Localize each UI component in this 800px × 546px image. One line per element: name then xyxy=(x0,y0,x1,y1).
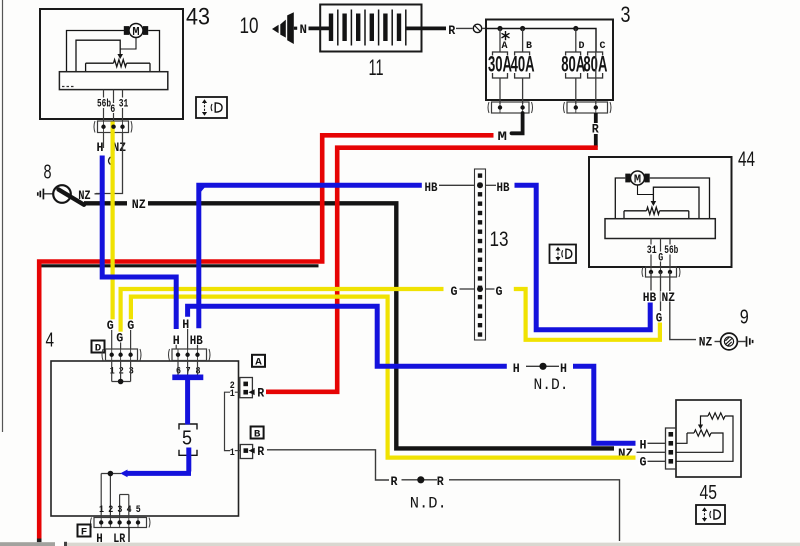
fuse A lead xyxy=(499,29,501,53)
45 pin 2 xyxy=(669,441,674,446)
strip 13 pin 4 xyxy=(478,201,482,205)
motor M in 43 xyxy=(124,24,148,39)
svg-text:HB: HB xyxy=(497,180,510,195)
svg-text:G: G xyxy=(127,318,134,333)
wire label HB pin8 xyxy=(189,334,204,345)
junction dot G on strip 13 xyxy=(477,286,483,292)
junction dot H ND xyxy=(539,363,546,370)
wire label G at 45 xyxy=(639,456,649,467)
lead below F pin 4 xyxy=(128,528,130,543)
svg-text:M: M xyxy=(132,25,139,39)
black wire parallel to red xyxy=(42,264,319,267)
svg-text:LR: LR xyxy=(113,531,125,546)
wire 44 inner loop xyxy=(653,187,699,219)
boxed label A xyxy=(252,355,265,367)
left page border xyxy=(2,0,4,432)
resistor zigzag 43 xyxy=(114,60,127,67)
svg-text:45: 45 xyxy=(700,482,718,504)
connector pins 6-8 xyxy=(169,349,211,361)
wire label NZ under 44 xyxy=(661,291,676,302)
wire M from fuse B xyxy=(512,113,523,133)
45 pin 3 xyxy=(669,450,674,455)
svg-text:1: 1 xyxy=(230,388,235,400)
45 pin 1 xyxy=(669,432,674,437)
svg-text:G: G xyxy=(640,455,647,470)
strip 13 pin 13 xyxy=(478,286,482,290)
motor M in 44 xyxy=(625,171,649,186)
wire 43 internal left xyxy=(67,31,125,72)
45 wire to NZ pin xyxy=(676,433,723,452)
svg-text:R: R xyxy=(437,474,444,489)
svg-text:H: H xyxy=(513,361,520,376)
wire R from fuse C xyxy=(594,113,598,123)
45 wire to G pin xyxy=(676,416,733,461)
battery cell plate thick 3 xyxy=(356,14,360,42)
svg-text:5: 5 xyxy=(182,428,192,450)
wire R battery to fusebox xyxy=(406,26,446,30)
43 NZ thin lead down to node of component 8 xyxy=(96,133,123,194)
thin lead 44 HB pin xyxy=(650,272,652,291)
resistor zigzag 45 top xyxy=(708,413,725,419)
junction dot fuse A feed xyxy=(497,26,502,31)
svg-text:A: A xyxy=(502,40,509,52)
svg-text:NZ: NZ xyxy=(132,197,146,212)
svg-text:56b: 56b xyxy=(664,245,678,257)
pin dot 43 middle redrawn xyxy=(111,125,115,129)
ground circle 8 xyxy=(53,185,71,203)
svg-text:80A: 80A xyxy=(561,52,585,77)
svg-text:M: M xyxy=(634,172,641,186)
component box 44 wiper motor assembly xyxy=(589,157,732,267)
svg-text:NZ: NZ xyxy=(699,334,713,349)
thin lead pin6 xyxy=(175,344,177,349)
svg-text:30A: 30A xyxy=(488,52,512,77)
thin lead D pin1 xyxy=(111,330,113,349)
strip 13 pin 9 xyxy=(478,248,482,252)
red wire path M: fuse B to left edge down xyxy=(39,135,493,538)
wire N to battery xyxy=(309,26,332,30)
connector F pins 1-5 xyxy=(91,518,151,528)
43 pin stubs xyxy=(103,90,105,98)
battery cell plate thin 3 xyxy=(364,10,366,46)
wire label H pin7 xyxy=(181,318,191,329)
blue bus bar under pins 6-8 xyxy=(172,374,203,380)
cable sheath mark xyxy=(109,157,111,165)
svg-text:R: R xyxy=(257,444,264,459)
svg-text:2: 2 xyxy=(108,504,113,516)
svg-text:10: 10 xyxy=(240,13,259,38)
svg-text:13: 13 xyxy=(490,228,509,251)
connector B xyxy=(240,445,252,459)
strip 13 pin 3 xyxy=(478,192,482,196)
connector of 43 xyxy=(94,121,132,133)
svg-text:8: 8 xyxy=(44,162,52,184)
thick slash through circle 8 continuing as wire xyxy=(59,190,85,205)
arrow into A pin 1 xyxy=(248,389,254,395)
svg-text:F: F xyxy=(81,526,88,538)
wire label G D2 xyxy=(115,332,125,343)
svg-text:HB: HB xyxy=(190,333,203,348)
wiper arrow 43 xyxy=(117,54,123,59)
connector A pin 2 xyxy=(243,382,248,387)
svg-text:H: H xyxy=(640,437,647,452)
thin lead pin8 xyxy=(197,344,199,349)
thick black NZ wire from 8 to 45 xyxy=(84,201,127,205)
svg-text:N: N xyxy=(300,22,308,37)
lead to circle 8 xyxy=(44,193,54,195)
fusebox top bus xyxy=(486,29,596,53)
battery cell plate thin 6 xyxy=(405,10,407,46)
arrow at end of blue wire to F xyxy=(120,470,127,478)
wire label H at 45 xyxy=(639,439,649,450)
boxed label B xyxy=(251,427,264,439)
resistor zigzag 45 lower xyxy=(694,430,711,436)
svg-text:H: H xyxy=(182,317,189,332)
battery cell plate thick 5 xyxy=(383,14,387,42)
blue wire strip13 HB to 44 HB xyxy=(515,185,651,329)
wire 43 internal right xyxy=(148,31,159,72)
svg-text:31: 31 xyxy=(647,245,657,257)
strip 13 pin 7 xyxy=(478,230,482,234)
svg-text:G: G xyxy=(496,284,503,299)
svg-text:B: B xyxy=(526,40,533,52)
svg-text:3: 3 xyxy=(621,2,631,27)
junction dot D common xyxy=(118,379,124,385)
strip 13 pin 11 xyxy=(478,267,482,271)
boxed label D xyxy=(92,341,105,353)
strip 13 pin 5 xyxy=(478,211,482,215)
wire label G under 44 xyxy=(655,312,664,323)
45 internal resistor lower xyxy=(676,433,687,443)
blue wire bar down through 5 xyxy=(185,377,190,424)
svg-text:R: R xyxy=(391,474,398,489)
fuse body 80A xyxy=(566,52,581,78)
strip 13 pin 8 xyxy=(478,239,482,243)
44 NZ thin lead to ground 9 xyxy=(670,272,696,340)
fuse body 80A xyxy=(588,52,603,78)
strip 13 pin 14 xyxy=(478,295,482,299)
connector D pins 1-3 xyxy=(102,349,141,361)
blue wire ND right to 45 H xyxy=(573,366,636,443)
wire label H pin6 xyxy=(172,334,182,345)
thin lead D pin2 xyxy=(120,342,122,349)
small arrow at HB corner xyxy=(197,185,204,193)
fusebox connector DC xyxy=(564,102,612,113)
wire 44 motor to wiper arrow xyxy=(638,185,654,195)
wiper arrow 44 xyxy=(651,201,657,206)
svg-text:NZ: NZ xyxy=(662,290,676,305)
blue wire pin7 H to ND junction left xyxy=(188,306,507,366)
fuse box 3 xyxy=(486,20,613,101)
R N.D. line from connector B xyxy=(267,450,389,480)
blue wire 43 H down and to pin 6 xyxy=(102,156,176,330)
bottom window bar xyxy=(0,542,55,546)
wire label G D1 xyxy=(106,319,116,330)
svg-text:44: 44 xyxy=(738,148,755,171)
svg-text:D: D xyxy=(579,40,585,52)
R ND wire to bottom edge xyxy=(449,480,620,541)
arrow into B pin 1 xyxy=(249,448,255,454)
svg-text:4: 4 xyxy=(127,504,132,516)
battery cell plate thick 6 xyxy=(397,14,401,42)
fuse D lead xyxy=(575,29,577,53)
wire 44 internal left xyxy=(615,178,625,219)
battery cell plate thick 4 xyxy=(370,14,374,42)
strip 13 pin 1 xyxy=(478,173,482,177)
battery 11 xyxy=(320,5,421,52)
svg-text:R: R xyxy=(448,23,455,38)
svg-text:11: 11 xyxy=(369,55,384,80)
red wire end cap dark xyxy=(37,539,42,543)
strip 13 pin 16 xyxy=(478,314,482,318)
fuse body 40A xyxy=(515,52,530,78)
D pins commoning xyxy=(111,361,113,382)
bracket linking A1 and B1 xyxy=(225,392,231,450)
fuse B bottom lead xyxy=(522,78,524,104)
svg-text:31: 31 xyxy=(119,99,129,111)
symbol headlight-leveling icon xyxy=(196,97,227,118)
thin stub below 43 pin1 xyxy=(103,133,105,149)
control unit box 4 xyxy=(51,361,239,516)
45 tap arrow xyxy=(701,416,703,425)
svg-text:9: 9 xyxy=(740,307,749,329)
symbol headlight-leveling icon xyxy=(550,245,577,264)
yellow wire D pin3 to 45 G xyxy=(131,297,636,458)
resistor in 43 xyxy=(86,62,114,64)
svg-text:6: 6 xyxy=(110,104,115,116)
strip 13 pin 15 xyxy=(478,304,482,308)
yellow wire D pin2 to strip 13 G xyxy=(121,289,444,332)
svg-text:4: 4 xyxy=(46,330,55,352)
fuse A bottom lead xyxy=(499,78,501,104)
battery cell plate thin 4 xyxy=(378,10,380,46)
resistor in 44 xyxy=(624,210,647,212)
junction dot R ND xyxy=(417,476,424,483)
yellow wire strip13 G to 44 G xyxy=(514,289,660,340)
svg-text:40A: 40A xyxy=(511,52,535,77)
svg-text:M: M xyxy=(498,129,508,144)
blue wire pin8 HB up to strip 13 xyxy=(199,185,422,328)
junction dot F feed xyxy=(108,471,114,477)
wire 43 internal inner loop xyxy=(76,40,120,71)
svg-text:C: C xyxy=(600,40,607,52)
svg-text:G: G xyxy=(451,284,458,299)
component 5 bracket box xyxy=(179,424,197,430)
wire label HB under 44 xyxy=(642,291,657,302)
connector symbol of 9 xyxy=(747,336,753,347)
strip 13 pin 6 xyxy=(478,220,482,224)
connector A xyxy=(240,378,253,398)
svg-text:43: 43 xyxy=(186,4,210,31)
svg-text:N.D.: N.D. xyxy=(534,376,569,394)
svg-text:R: R xyxy=(257,386,264,401)
svg-text:1: 1 xyxy=(230,447,235,459)
ground symbol 10 triangles xyxy=(272,25,279,33)
strip 13 pin 2 xyxy=(478,183,482,187)
45 pin 4 xyxy=(669,459,674,464)
asterisk fuse A xyxy=(502,31,510,40)
symbol headlight-leveling icon xyxy=(696,505,725,524)
fuse C bottom lead xyxy=(595,52,597,104)
svg-text:G: G xyxy=(107,318,114,333)
wire 43 motor to wiper arrow xyxy=(120,38,136,50)
battery cell plate thick 1 xyxy=(329,14,333,42)
svg-text:G: G xyxy=(116,331,123,346)
terminal strip 13 xyxy=(475,169,486,340)
svg-text:HB: HB xyxy=(425,180,438,195)
junction dot fuse D feed xyxy=(573,26,578,31)
connector of 44 xyxy=(642,267,680,277)
dash after NZ xyxy=(95,193,100,195)
connector strip of 45 xyxy=(666,428,677,469)
red wire path R: fuse C to connector A xyxy=(266,148,598,392)
wire label NZ at 45 xyxy=(617,448,635,459)
thin lead D pin3 xyxy=(130,330,132,349)
thin leads to F pins xyxy=(100,474,102,518)
svg-text:A: A xyxy=(255,357,262,369)
strip 13 pin 17 xyxy=(478,323,482,327)
battery cell plate thin 2 xyxy=(350,10,352,46)
svg-text:5: 5 xyxy=(136,504,141,516)
fuse D bottom lead xyxy=(575,78,577,104)
ground circle 9 hatched xyxy=(721,333,738,350)
44 pin stubs xyxy=(650,239,652,245)
bracket F pins 3-4 xyxy=(120,494,129,496)
strip 13 pin 12 xyxy=(478,276,482,280)
component box 45 xyxy=(676,400,741,477)
strip 13 pin 10 xyxy=(478,258,482,262)
inline connector symbol left of fusebox xyxy=(473,24,481,32)
battery cell plate thin 1 xyxy=(337,10,339,46)
svg-text:56b: 56b xyxy=(97,99,111,111)
fusebox connector AB xyxy=(488,102,533,113)
svg-text:B: B xyxy=(254,428,261,440)
connector symbol of 8 xyxy=(38,189,44,200)
junction dot fuse B feed xyxy=(520,26,525,31)
svg-text:1: 1 xyxy=(110,366,115,378)
svg-text:N.D.: N.D. xyxy=(410,495,447,513)
thin lead pin7 xyxy=(187,329,189,349)
boxed label F xyxy=(78,525,91,537)
battery cell plate thick 2 xyxy=(342,14,346,42)
strip 13 pin 18 xyxy=(478,332,482,336)
44 G thin lead xyxy=(660,272,662,311)
fuse body 30A xyxy=(493,52,508,78)
svg-text:H: H xyxy=(173,333,180,348)
svg-text:H: H xyxy=(560,361,567,376)
svg-text:3: 3 xyxy=(117,504,122,516)
connector B pin 1 xyxy=(244,448,249,453)
junction dot HB on strip 13 xyxy=(477,182,483,188)
fuse B lead xyxy=(522,29,524,53)
svg-text:D: D xyxy=(95,342,102,354)
45 internal resistor top xyxy=(702,415,708,417)
component box 43 wiper motor assembly xyxy=(40,9,183,119)
yellow wire 43 pin6 down to D pin1 xyxy=(110,122,114,320)
wire 44 internal right outer xyxy=(650,178,710,219)
43 base block xyxy=(59,72,167,90)
connector A pin 1 xyxy=(243,390,248,395)
battery cell plate thin 5 xyxy=(391,10,393,46)
svg-text:1: 1 xyxy=(99,504,104,516)
svg-text:H: H xyxy=(96,531,103,546)
svg-text:H: H xyxy=(97,140,104,155)
resistor zigzag 44 xyxy=(647,207,660,214)
wire label G D3 xyxy=(126,319,136,330)
44 base block xyxy=(605,219,715,239)
